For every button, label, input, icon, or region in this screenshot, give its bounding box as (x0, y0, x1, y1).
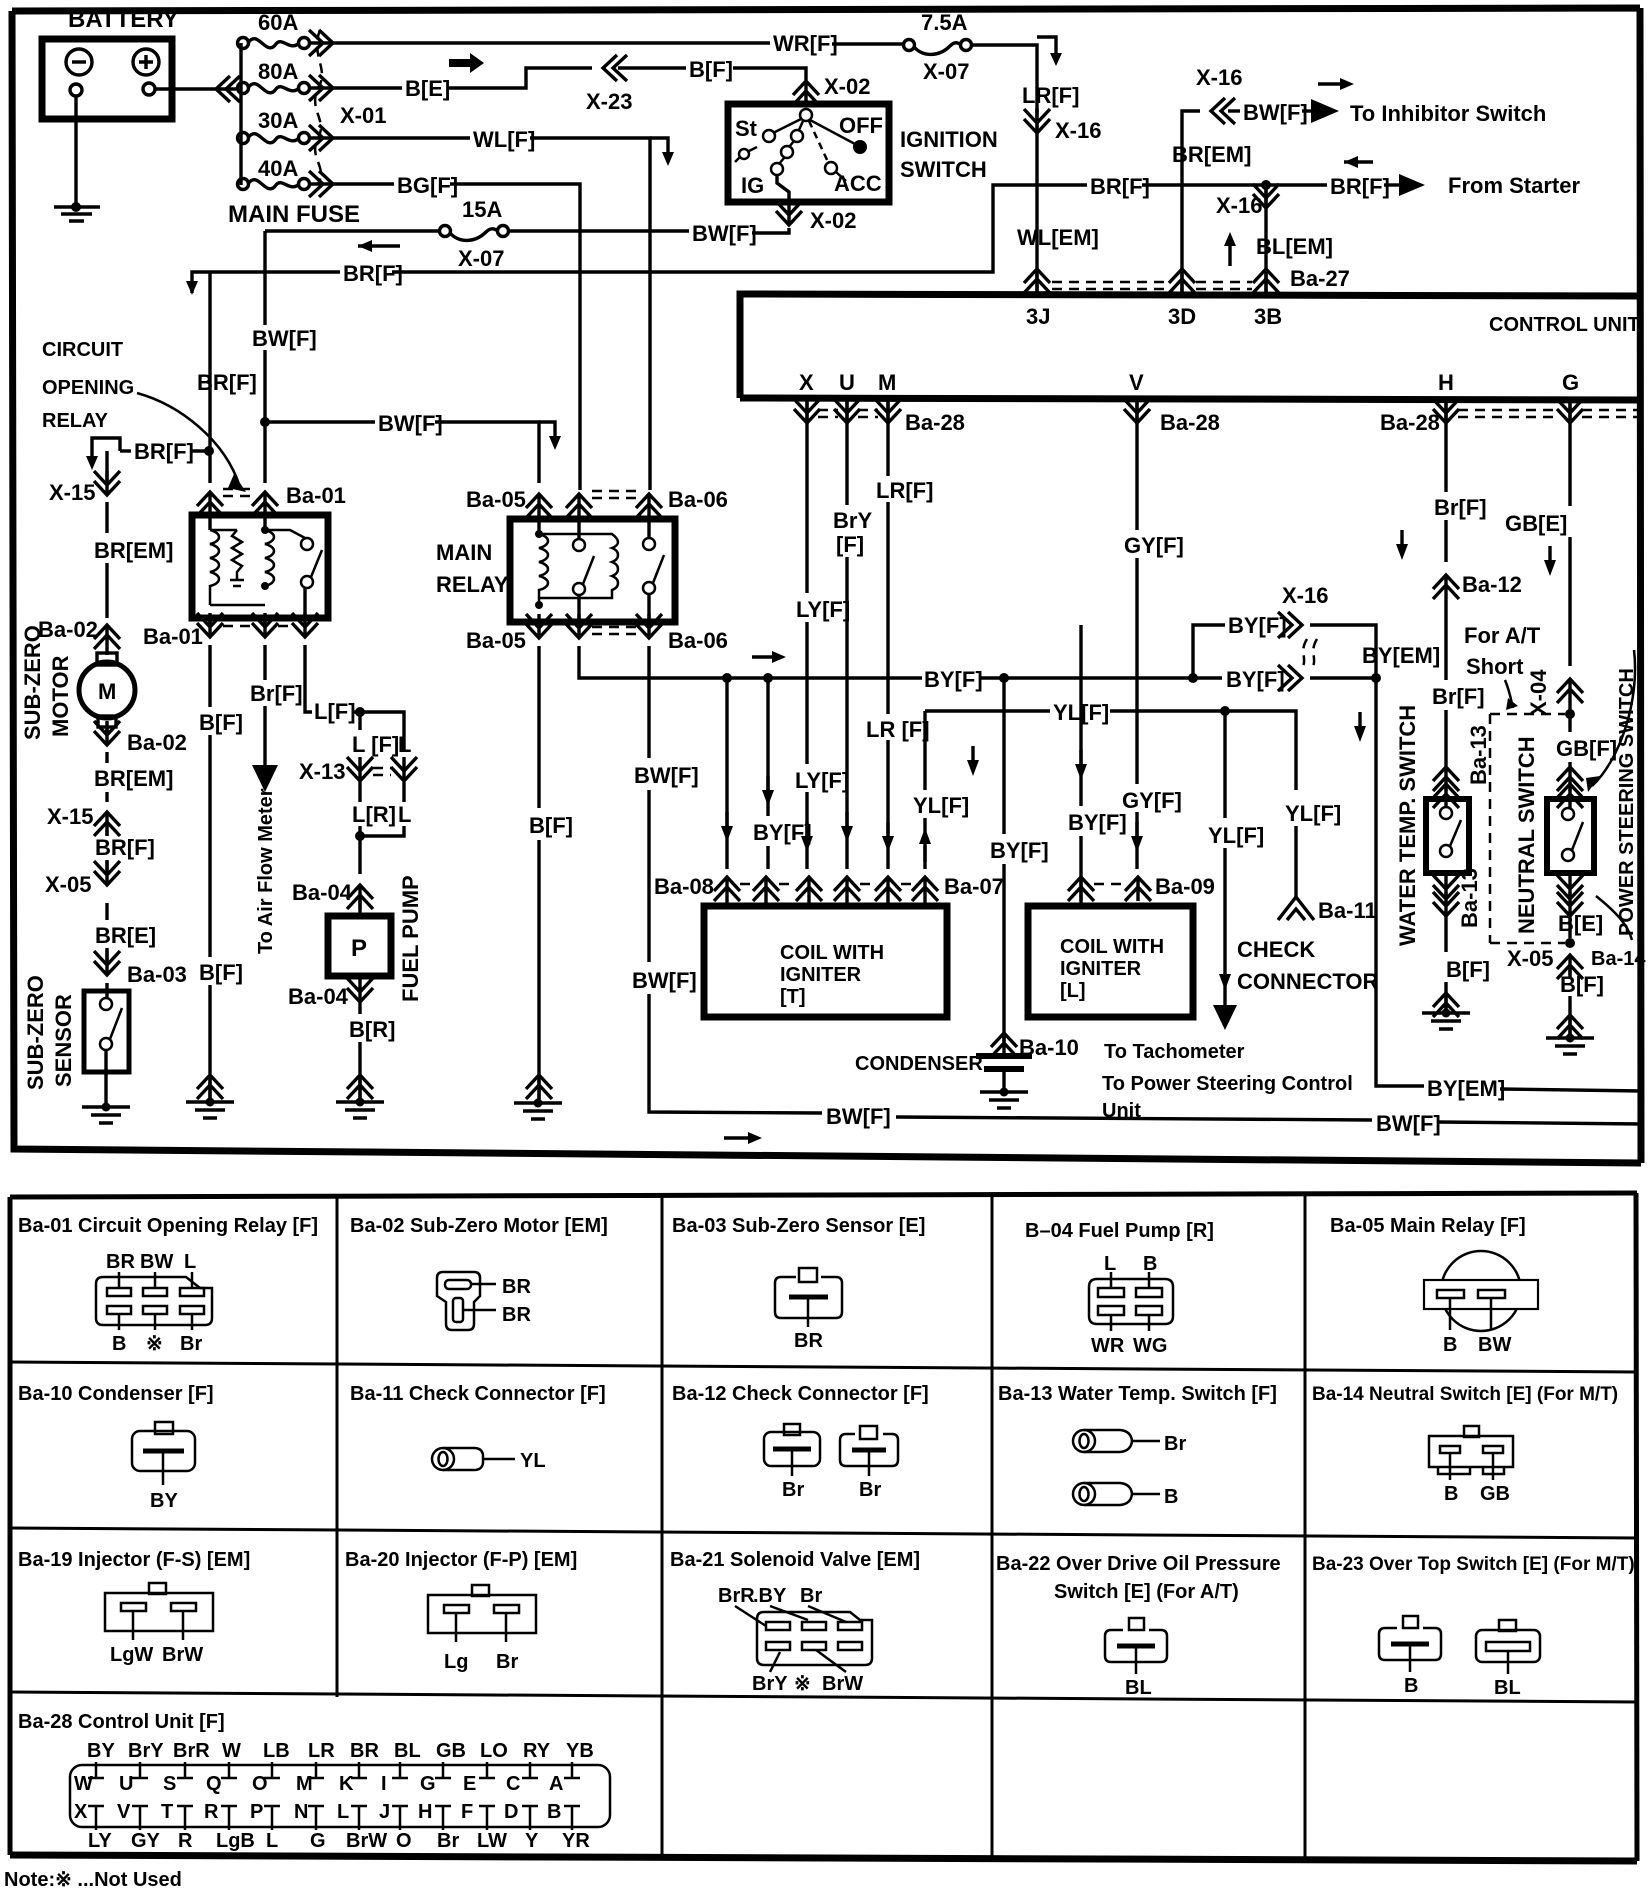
svg-text:T: T (161, 1801, 173, 1823)
svg-text:BR[E]: BR[E] (95, 923, 156, 948)
svg-text:MAIN: MAIN (436, 540, 492, 565)
border frame (12, 8, 1641, 1163)
node Ba-01 bottom (197, 613, 223, 637)
power steering switch box (1547, 799, 1594, 873)
svg-text:LgB: LgB (216, 1830, 255, 1852)
svg-text:L: L (337, 1801, 349, 1823)
svg-text:BR[EM]: BR[EM] (94, 538, 173, 563)
svg-text:B: B (1404, 1675, 1418, 1697)
svg-text:St: St (735, 116, 758, 141)
svg-text:BATTERY: BATTERY (68, 6, 179, 33)
svg-text:BW[F]: BW[F] (826, 1104, 891, 1129)
wire BY[F] drop 2 (766, 678, 769, 816)
svg-text:BrY: BrY (752, 1673, 788, 1695)
svg-text:Ba-04: Ba-04 (288, 984, 349, 1009)
fuse 40A (238, 179, 249, 190)
svg-text:B[R]: B[R] (349, 1017, 395, 1042)
svg-text:COIL WITH: COIL WITH (780, 942, 884, 964)
wire BG[F] row (310, 182, 394, 185)
fuse 60A (238, 38, 249, 49)
svg-text:Br: Br (859, 1479, 881, 1501)
svg-text:G: G (1562, 370, 1579, 395)
svg-text:For A/T: For A/T (1464, 623, 1541, 648)
svg-text:BR[EM]: BR[EM] (94, 766, 173, 791)
svg-text:Ba-02 Sub-Zero Motor [EM]: Ba-02 Sub-Zero Motor [EM] (350, 1215, 608, 1237)
svg-text:L: L (184, 1251, 196, 1273)
node Ba-02 (94, 625, 120, 649)
svg-text:X-02: X-02 (824, 74, 870, 99)
svg-text:E: E (463, 1773, 476, 1795)
svg-text:ACC: ACC (834, 171, 882, 196)
svg-text:Ba-07: Ba-07 (944, 874, 1004, 899)
svg-text:Ba-02: Ba-02 (127, 730, 187, 755)
wire LY[F] from X (805, 400, 808, 593)
svg-text:BY: BY (87, 1740, 115, 1762)
svg-text:Ba-05 Main Relay [F]: Ba-05 Main Relay [F] (1330, 1215, 1526, 1237)
wire BL[EM] to 3B (1261, 180, 1271, 190)
svg-text:BW[F]: BW[F] (634, 763, 699, 788)
svg-text:Ba-20 Injector (F-P) [EM]: Ba-20 Injector (F-P) [EM] (345, 1549, 577, 1571)
node X-05 (94, 861, 120, 885)
svg-text:Br[F]: Br[F] (1434, 495, 1487, 520)
node Ba-05 top (526, 494, 552, 518)
main fuse bus (239, 43, 242, 185)
ground sub-zero sensor (82, 1103, 130, 1124)
svg-text:BW: BW (140, 1251, 173, 1273)
node X-15 (94, 812, 120, 836)
svg-text:BY[F]: BY[F] (924, 667, 983, 692)
svg-text:X-16: X-16 (1216, 193, 1262, 218)
node Ba-01 top (197, 492, 223, 516)
svg-text:X-16: X-16 (1196, 65, 1242, 90)
wire BY[F] feed from main relay (579, 646, 922, 678)
svg-text:80A: 80A (258, 59, 298, 84)
svg-text:BW[F]: BW[F] (692, 221, 757, 246)
svg-text:Short: Short (1466, 654, 1524, 679)
svg-text:X: X (799, 370, 814, 395)
wire BR[F] long row (92, 438, 120, 456)
svg-text:O: O (396, 1830, 412, 1852)
svg-text:X-16: X-16 (1282, 583, 1328, 608)
svg-text:IG: IG (741, 173, 764, 198)
svg-text:B: B (1143, 1253, 1157, 1275)
svg-text:Ba-14 Neutral Switch [E] (For: Ba-14 Neutral Switch [E] (For M/T) (1312, 1384, 1618, 1405)
svg-text:L [F]: L [F] (352, 732, 399, 757)
svg-text:BY: BY (150, 1490, 178, 1512)
svg-text:LY: LY (88, 1830, 112, 1852)
svg-text:Ba-12: Ba-12 (1462, 572, 1522, 597)
svg-text:LY[F]: LY[F] (796, 597, 850, 622)
svg-text:Br: Br (437, 1830, 459, 1852)
svg-text:CONDENSER: CONDENSER (855, 1053, 983, 1075)
svg-text:Ba-02: Ba-02 (38, 617, 98, 642)
svg-text:P: P (250, 1801, 263, 1823)
svg-text:B–04 Fuel Pump [R]: B–04 Fuel Pump [R] (1025, 1220, 1214, 1242)
svg-text:M: M (98, 679, 116, 704)
svg-text:B[F]: B[F] (1446, 957, 1490, 982)
svg-text:M: M (878, 370, 896, 395)
svg-text:LW: LW (477, 1830, 507, 1852)
circuit opening relay box (192, 515, 328, 618)
wire WL[F] row (310, 136, 470, 139)
svg-text:To Power Steering Control: To Power Steering Control (1102, 1073, 1353, 1095)
wire BW[F] to inhibitor switch (1182, 111, 1200, 185)
sub-zero motor M (105, 649, 108, 655)
svg-text:BY[F]: BY[F] (1226, 667, 1285, 692)
svg-text:WL[F]: WL[F] (473, 127, 535, 152)
svg-text:BrR: BrR (718, 1585, 755, 1607)
wire LR[F] from M (886, 400, 889, 476)
svg-text:BR[F]: BR[F] (1330, 174, 1390, 199)
svg-text:WR[F]: WR[F] (773, 31, 838, 56)
svg-text:B: B (547, 1801, 561, 1823)
wire 15A / BW[F] (265, 229, 440, 232)
svg-text:BW[F]: BW[F] (632, 968, 697, 993)
svg-text:BG[F]: BG[F] (397, 173, 458, 198)
svg-text:BrY: BrY (128, 1740, 164, 1762)
svg-text:Ba-03 Sub-Zero Sensor [E]: Ba-03 Sub-Zero Sensor [E] (672, 1215, 925, 1237)
svg-text:BrR: BrR (173, 1740, 210, 1762)
svg-text:W: W (222, 1740, 241, 1762)
svg-text:Ba-11 Check Connector [F]: Ba-11 Check Connector [F] (350, 1383, 606, 1405)
svg-text:BrY: BrY (833, 508, 872, 533)
svg-text:BR[F]: BR[F] (134, 439, 194, 464)
svg-text:3B: 3B (1254, 304, 1282, 329)
svg-text:Ba-01 Circuit Opening Relay [F: Ba-01 Circuit Opening Relay [F] (18, 1215, 318, 1237)
svg-text:R: R (178, 1830, 193, 1852)
svg-text:Ba-04: Ba-04 (292, 880, 353, 905)
ground battery (74, 96, 77, 206)
svg-text:Ba-27: Ba-27 (1290, 266, 1350, 291)
svg-text:BR: BR (350, 1740, 379, 1762)
svg-text:A: A (549, 1773, 563, 1795)
svg-text:BR: BR (794, 1330, 823, 1352)
wire BR[F] (105, 830, 108, 836)
svg-text:OFF: OFF (839, 113, 883, 138)
svg-text:D: D (504, 1801, 518, 1823)
svg-text:BR[F]: BR[F] (197, 370, 257, 395)
svg-text:SUB-ZERO: SUB-ZERO (20, 625, 45, 740)
svg-text:To Air Flow Meter: To Air Flow Meter (255, 788, 277, 954)
svg-text:LR[F]: LR[F] (876, 478, 933, 503)
svg-text:BL: BL (1125, 1677, 1152, 1699)
svg-text:Br: Br (180, 1333, 202, 1355)
svg-text:X-02: X-02 (810, 208, 856, 233)
svg-text:Ba-05: Ba-05 (466, 628, 526, 653)
svg-text:G: G (310, 1830, 326, 1852)
svg-text:X-01: X-01 (340, 103, 386, 128)
svg-text:V: V (117, 1801, 131, 1823)
svg-text:LR [F]: LR [F] (866, 717, 930, 742)
Ba-28 connectors below control unit (794, 399, 820, 423)
fuse 7.5A (904, 40, 915, 51)
sub-zero sensor (84, 991, 129, 1072)
wire BR[EM] (105, 451, 108, 533)
svg-text:B: B (112, 1333, 126, 1355)
svg-text:BY[EM]: BY[EM] (1362, 643, 1440, 668)
svg-text:B: B (1164, 1486, 1178, 1508)
svg-text:B[E]: B[E] (405, 76, 450, 101)
svg-text:S: S (163, 1773, 176, 1795)
svg-text:Lg: Lg (444, 1651, 468, 1673)
svg-text:Y: Y (525, 1830, 539, 1852)
svg-text:Br: Br (782, 1479, 804, 1501)
svg-text:To Inhibitor Switch: To Inhibitor Switch (1350, 101, 1546, 126)
svg-text:MAIN FUSE: MAIN FUSE (228, 201, 360, 228)
svg-text:IGNITION: IGNITION (900, 127, 998, 152)
svg-text:GB: GB (436, 1740, 466, 1762)
svg-text:※: ※ (794, 1673, 811, 1695)
svg-text:CIRCUIT: CIRCUIT (42, 339, 123, 361)
svg-text:BrW: BrW (346, 1830, 387, 1852)
svg-text:Ba-03: Ba-03 (127, 962, 187, 987)
svg-text:Ba-23 Over Top Switch [E] (For: Ba-23 Over Top Switch [E] (For M/T) (1312, 1554, 1635, 1575)
wire from BY upper branch to coil L : vertical at 1081 top (1080, 624, 1082, 626)
svg-text:BW[F]: BW[F] (1376, 1111, 1441, 1136)
dashed A/T box (1490, 714, 1565, 943)
svg-text:30A: 30A (258, 108, 298, 133)
svg-text:RY: RY (523, 1740, 551, 1762)
svg-text:BrW: BrW (822, 1673, 863, 1695)
svg-text:B[F]: B[F] (1560, 972, 1604, 997)
svg-text:BY[F]: BY[F] (1068, 810, 1127, 835)
wire Br[F] to air flow meter (263, 618, 266, 680)
svg-text:GY[F]: GY[F] (1122, 788, 1182, 813)
svg-text:Ba-28: Ba-28 (1160, 410, 1220, 435)
svg-text:BY[EM]: BY[EM] (1427, 1076, 1505, 1101)
svg-text:BR[EM]: BR[EM] (1172, 142, 1251, 167)
svg-text:BL: BL (394, 1740, 421, 1762)
wire to LR[F] (971, 45, 1037, 112)
svg-text:Br: Br (800, 1585, 822, 1607)
svg-text:L[F]: L[F] (314, 699, 356, 724)
svg-text:B[F]: B[F] (529, 813, 573, 838)
svg-text:Ba-09: Ba-09 (1155, 874, 1215, 899)
svg-text:L: L (398, 802, 411, 827)
svg-text:Ba-06: Ba-06 (668, 628, 728, 653)
svg-text:Ba-19 Injector (F-S) [EM]: Ba-19 Injector (F-S) [EM] (18, 1549, 250, 1571)
svg-text:15A: 15A (462, 197, 502, 222)
svg-text:YL[F]: YL[F] (913, 793, 969, 818)
svg-text:YB: YB (566, 1740, 594, 1762)
svg-text:BY[F]: BY[F] (1228, 613, 1287, 638)
svg-text:Ba-21 Solenoid Valve [EM]: Ba-21 Solenoid Valve [EM] (670, 1549, 920, 1571)
svg-text:L[R]: L[R] (352, 802, 396, 827)
svg-text:B: B (1444, 1483, 1458, 1505)
svg-text:X-07: X-07 (923, 59, 969, 84)
svg-text:WR: WR (1091, 1335, 1125, 1357)
svg-text:YL[F]: YL[F] (1208, 823, 1264, 848)
svg-text:IGNITER: IGNITER (780, 964, 862, 986)
svg-text:X-04: X-04 (1526, 669, 1551, 716)
svg-text:Br: Br (1164, 1433, 1186, 1455)
svg-text:3J: 3J (1026, 304, 1050, 329)
wire L[F] branch to fuel pump (305, 645, 312, 712)
node Ba-02 below motor (105, 727, 108, 732)
svg-text:POWER STEERING SWITCH: POWER STEERING SWITCH (1616, 668, 1638, 936)
svg-text:Ba-10 Condenser [F]: Ba-10 Condenser [F] (18, 1383, 214, 1405)
svg-text:H: H (1438, 370, 1454, 395)
wire B[E] row (310, 86, 402, 89)
svg-text:B[E]: B[E] (1558, 911, 1603, 936)
svg-text:LO: LO (480, 1740, 508, 1762)
ignition switch (728, 104, 889, 202)
svg-text:C: C (506, 1773, 520, 1795)
svg-text:BR[F]: BR[F] (95, 835, 155, 860)
svg-text:X: X (74, 1801, 88, 1823)
svg-text:※: ※ (146, 1333, 163, 1355)
svg-text:X-16: X-16 (1055, 118, 1101, 143)
svg-text:BrW: BrW (162, 1644, 203, 1666)
wire BW[F] branch to main relay (265, 420, 375, 423)
svg-text:40A: 40A (258, 156, 298, 181)
svg-text:X-15: X-15 (49, 480, 95, 505)
svg-text:Ba-05: Ba-05 (466, 487, 526, 512)
svg-text:Br[F]: Br[F] (250, 681, 303, 706)
svg-text:LB: LB (263, 1740, 290, 1762)
svg-text:X-15: X-15 (47, 804, 93, 829)
svg-text:LY[F]: LY[F] (795, 768, 849, 793)
water temp switch box (1426, 799, 1469, 873)
svg-text:[T]: [T] (780, 986, 806, 1008)
svg-text:U: U (839, 370, 855, 395)
wire BW[F] under main relay (647, 646, 650, 758)
svg-text:L: L (398, 732, 411, 757)
svg-text:Ba-28: Ba-28 (905, 410, 965, 435)
svg-text:Br: Br (496, 1651, 518, 1673)
svg-text:YR: YR (562, 1830, 590, 1852)
svg-text:B[F]: B[F] (199, 710, 243, 735)
wire BR[EM] (105, 752, 108, 763)
svg-text:Ba-01: Ba-01 (286, 483, 346, 508)
svg-text:60A: 60A (258, 10, 298, 35)
svg-text:BL: BL (1494, 1677, 1521, 1699)
svg-text:R: R (204, 1801, 219, 1823)
svg-text:I: I (381, 1773, 387, 1795)
svg-text:MOTOR: MOTOR (48, 655, 73, 737)
svg-text:GB[F]: GB[F] (1556, 736, 1617, 761)
svg-text:GY: GY (131, 1830, 161, 1852)
svg-text:IGNITER: IGNITER (1060, 958, 1142, 980)
main relay box (510, 519, 675, 622)
wire B[F] under main relay to ground (537, 646, 540, 808)
wire WR[F] row (310, 41, 770, 44)
svg-text:Q: Q (206, 1773, 222, 1795)
svg-text:BR: BR (106, 1251, 135, 1273)
svg-text:F: F (461, 1801, 473, 1823)
fuse 80A (238, 83, 249, 94)
svg-text:BY[F]: BY[F] (990, 838, 1049, 863)
svg-text:SUB-ZERO: SUB-ZERO (23, 975, 48, 1090)
svg-text:LR[F]: LR[F] (1022, 83, 1079, 108)
svg-text:P: P (351, 935, 367, 962)
svg-text:O: O (252, 1773, 268, 1795)
svg-text:Ba-01: Ba-01 (143, 624, 203, 649)
svg-text:Ba-22 Over Drive Oil Pressure: Ba-22 Over Drive Oil Pressure (996, 1553, 1281, 1575)
wire battery to fuse (155, 87, 236, 90)
svg-text:.BY: .BY (753, 1585, 787, 1607)
svg-text:[F]: [F] (836, 532, 864, 557)
svg-text:U: U (119, 1773, 133, 1795)
svg-text:X-05: X-05 (1507, 946, 1553, 971)
svg-text:J: J (379, 1801, 390, 1823)
svg-text:[L]: [L] (1060, 980, 1086, 1002)
svg-text:FUEL PUMP: FUEL PUMP (398, 875, 423, 1002)
svg-text:WG: WG (1133, 1335, 1167, 1357)
svg-text:7.5A: 7.5A (921, 10, 968, 35)
node Ba-05 bottom (526, 614, 552, 638)
svg-text:Unit: Unit (1102, 1100, 1141, 1122)
wire BR[F] vertical into relay (208, 272, 211, 483)
node X-15 (94, 471, 120, 495)
svg-text:Ba-28: Ba-28 (1380, 410, 1440, 435)
svg-text:L: L (266, 1830, 278, 1852)
wire BW[F] vertical from 15A (263, 231, 266, 483)
svg-text:GB[E]: GB[E] (1505, 511, 1567, 536)
svg-text:RELAY: RELAY (42, 410, 109, 432)
svg-text:Switch [E] (For A/T): Switch [E] (For A/T) (1054, 1581, 1239, 1603)
fuse 30A (238, 133, 249, 144)
svg-text:Br[F]: Br[F] (1432, 684, 1485, 709)
svg-text:OPENING: OPENING (42, 377, 134, 399)
svg-text:X-07: X-07 (458, 246, 504, 271)
svg-text:LgW: LgW (110, 1644, 153, 1666)
svg-text:CONTROL UNIT: CONTROL UNIT (1489, 314, 1640, 336)
svg-text:YL[F]: YL[F] (1285, 801, 1341, 826)
wire YL[F] horizontal (925, 709, 1050, 712)
svg-text:M: M (296, 1773, 313, 1795)
svg-text:BW[F]: BW[F] (252, 326, 317, 351)
fuel pump (328, 916, 391, 976)
node Ba-03 (94, 951, 120, 975)
svg-text:BW[F]: BW[F] (378, 411, 443, 436)
svg-text:WL[EM]: WL[EM] (1017, 225, 1099, 250)
wire BR[E] (105, 903, 108, 920)
svg-text:X-23: X-23 (586, 89, 632, 114)
svg-text:BR[F]: BR[F] (1090, 174, 1150, 199)
svg-text:From Starter: From Starter (1448, 173, 1580, 198)
wire YL[F] to tachometer (1223, 711, 1226, 818)
svg-text:CONNECTOR: CONNECTOR (1237, 969, 1378, 994)
svg-text:H: H (418, 1801, 432, 1823)
svg-text:Ba-13: Ba-13 (1457, 868, 1482, 928)
connector X-01 chevrons (309, 30, 333, 56)
svg-text:B[F]: B[F] (199, 960, 243, 985)
svg-text:GY[F]: GY[F] (1124, 533, 1184, 558)
svg-text:X-05: X-05 (45, 872, 91, 897)
svg-text:B: B (1443, 1334, 1457, 1356)
svg-text:Ba-11: Ba-11 (1318, 898, 1377, 923)
svg-text:G: G (420, 1773, 436, 1795)
svg-text:Ba-14: Ba-14 (1591, 948, 1646, 970)
svg-text:Ba-12 Check Connector [F]: Ba-12 Check Connector [F] (672, 1383, 929, 1405)
svg-text:SWITCH: SWITCH (900, 157, 987, 182)
svg-text:BW: BW (1478, 1334, 1511, 1356)
svg-text:RELAY: RELAY (436, 572, 509, 597)
svg-text:BY[F]: BY[F] (753, 820, 812, 845)
svg-text:Ba-06: Ba-06 (668, 487, 728, 512)
svg-text:W: W (74, 1773, 93, 1795)
svg-text:To Tachometer: To Tachometer (1104, 1041, 1245, 1063)
wire BY[F] drop 1 (725, 678, 728, 869)
svg-text:L: L (1104, 1253, 1116, 1275)
svg-text:K: K (339, 1773, 354, 1795)
wire BrY[F] from U (845, 400, 848, 505)
svg-text:COIL WITH: COIL WITH (1060, 936, 1164, 958)
wire GY[F] from V (1135, 400, 1138, 530)
svg-text:GB: GB (1480, 1483, 1510, 1505)
svg-text:BR: BR (502, 1276, 531, 1298)
